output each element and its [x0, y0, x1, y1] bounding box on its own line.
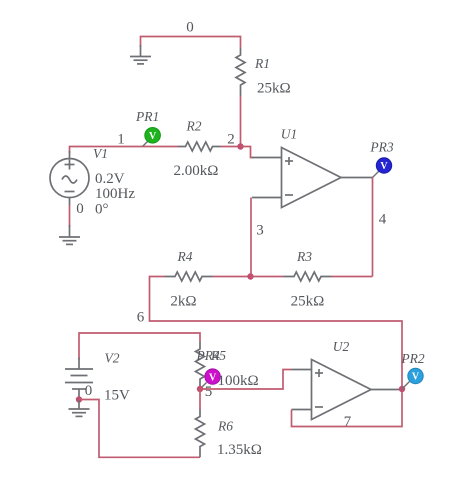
- wire U1 - input down to node 3: [250, 198, 252, 277]
- resistor R5: [196, 342, 205, 390]
- probe PR2: [402, 368, 423, 389]
- resistor R6: [196, 410, 205, 458]
- svg-text:U1: U1: [281, 127, 298, 142]
- wire top rail: [141, 37, 241, 48]
- junction node 5: [197, 386, 203, 392]
- svg-text:PR3: PR3: [369, 140, 393, 155]
- svg-text:25kΩ: 25kΩ: [257, 81, 291, 97]
- svg-text:0.2V: 0.2V: [95, 171, 125, 187]
- ground (under V1): [59, 225, 80, 244]
- resistor R4: [165, 272, 213, 281]
- probe PR4: [200, 369, 220, 389]
- wire node 5 to U2 + input: [200, 370, 292, 390]
- ground (under V2): [69, 400, 90, 417]
- svg-text:R2: R2: [186, 119, 202, 134]
- wire V1 top to R2: [70, 147, 179, 154]
- svg-text:25kΩ: 25kΩ: [291, 294, 325, 310]
- svg-text:3: 3: [256, 223, 264, 239]
- junction node 2: [237, 143, 243, 149]
- wire V2 top to R5 top: [79, 333, 200, 360]
- svg-text:15V: 15V: [104, 388, 130, 404]
- wire node 5 to R6 top: [199, 389, 201, 410]
- svg-text:100Hz: 100Hz: [95, 186, 135, 202]
- battery V2: [65, 358, 93, 400]
- svg-text:0: 0: [76, 201, 84, 217]
- wire U2 feedback loop: [292, 390, 403, 427]
- op-amp U1: [252, 148, 373, 208]
- svg-text:PR2: PR2: [400, 351, 424, 366]
- voltage source V1: [50, 151, 89, 205]
- svg-text:R6: R6: [217, 419, 233, 434]
- svg-text:V: V: [412, 372, 420, 383]
- wire R4 right to node 3: [213, 276, 251, 278]
- svg-text:7: 7: [344, 414, 352, 430]
- junction node 3: [247, 273, 253, 279]
- junction U2 output: [399, 386, 405, 392]
- wire R2 to node 2: [221, 146, 241, 148]
- svg-text:1: 1: [117, 132, 125, 148]
- wire R3 right to U1 output column: [332, 276, 373, 278]
- wire V2 bottom rail to R6 bottom: [79, 400, 200, 458]
- wire node 3 to R3 left: [251, 276, 284, 278]
- svg-text:100kΩ: 100kΩ: [218, 373, 259, 389]
- svg-text:1.35kΩ: 1.35kΩ: [217, 442, 262, 458]
- svg-text:2.00kΩ: 2.00kΩ: [174, 163, 219, 179]
- svg-text:0: 0: [186, 20, 194, 36]
- svg-text:U2: U2: [333, 339, 350, 354]
- svg-text:V1: V1: [93, 146, 108, 161]
- wire R1 bottom to node 2: [240, 96, 242, 147]
- svg-text:2kΩ: 2kΩ: [170, 294, 196, 310]
- svg-text:V: V: [209, 372, 217, 383]
- svg-text:R5: R5: [210, 348, 226, 363]
- op-amp U2: [292, 360, 403, 420]
- wire net 6: R4 left down and across to U2 output column: [150, 277, 403, 390]
- resistor R3: [284, 272, 332, 281]
- probe PR3: [373, 158, 392, 178]
- resistor R2: [178, 142, 221, 151]
- svg-text:PR1: PR1: [135, 109, 159, 124]
- svg-text:0: 0: [85, 383, 93, 399]
- resistor R1: [236, 48, 245, 97]
- svg-text:5: 5: [205, 384, 213, 400]
- wire V1 bottom: [69, 205, 71, 227]
- svg-text:V: V: [380, 161, 388, 172]
- svg-text:0°: 0°: [95, 202, 109, 218]
- wire node 2 to U1 + input: [241, 147, 254, 158]
- svg-text:4: 4: [379, 212, 387, 228]
- junction node 0 (V2 bottom): [76, 396, 82, 402]
- probe PR1: [143, 128, 161, 147]
- svg-text:V2: V2: [105, 351, 120, 366]
- svg-text:R3: R3: [296, 249, 312, 264]
- wire U1 output down to R3 row: [372, 178, 374, 277]
- ground (top left): [130, 45, 151, 64]
- svg-text:R4: R4: [177, 249, 193, 264]
- svg-text:2: 2: [227, 132, 235, 148]
- svg-text:6: 6: [137, 310, 145, 326]
- svg-text:V: V: [149, 131, 157, 142]
- svg-text:R1: R1: [254, 56, 270, 71]
